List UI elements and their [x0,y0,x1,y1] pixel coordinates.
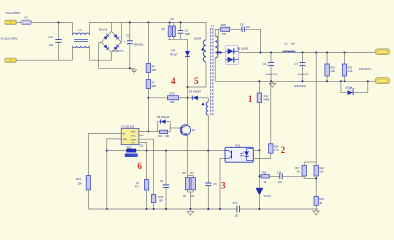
resistor R18 (snubber) [221,23,242,36]
wire bridge left vertex to ground run [99,42,134,68]
svg-text:GND: GND [122,139,127,141]
wire secondary top to D8 [218,29,225,52]
svg-text:R18: R18 [221,23,226,27]
svg-text:R14: R14 [264,95,269,98]
transformer aux winding [206,98,208,151]
IC pin1 drive wire [139,131,158,133]
wire bottom AC to bridge [90,52,112,60]
ground (primary B-) [131,68,137,73]
optocoupler PC1 [225,143,253,162]
svg-text:R16: R16 [262,171,267,174]
IC U1 DK125 [121,124,139,144]
capacitor C4 [135,151,149,209]
inductor L2 (output filter) [283,42,295,53]
dual diode D8 (output rectifier) [219,46,249,65]
wire IC pin FB to left [88,132,121,134]
sense resistor chain (net 1) [257,81,270,150]
row P feedback wire to PC1 [107,150,127,152]
capacitor C8 (snubber) [240,22,261,52]
resistor R17 [295,162,306,178]
resistor R2 (clamp, pair a) [162,22,172,39]
connector J2 (AC neutral) [5,58,16,63]
resistor R23 [314,196,324,209]
node dots clamp [169,21,171,23]
ground secondary bottom [313,209,319,215]
shunt regulator TL431 [256,188,272,209]
svg-text:13K: 13K [319,172,324,174]
transformer core [211,28,213,115]
svg-text:1: 1 [248,94,253,104]
svg-text:R2: R2 [162,27,166,31]
svg-text:1N4007*4: 1N4007*4 [112,50,124,53]
svg-text:1R: 1R [191,196,194,198]
svg-text:1K: 1K [264,182,267,184]
svg-text:R15: R15 [159,196,164,199]
svg-text:CY1: CY1 [233,202,238,205]
wire bridge right vertex up to rail [120,22,122,42]
svg-text:VCC: VCC [131,135,136,137]
svg-text:FR107: FR107 [170,53,178,56]
svg-text:C8: C8 [240,22,244,26]
resistor R24 (opto series) [253,81,279,158]
svg-text:2M2: 2M2 [152,86,157,88]
resistor R11 (gate) [158,122,171,139]
svg-text:3: 3 [221,180,226,190]
transformer T1 primary winding [188,22,207,87]
connector -OUT [375,78,390,84]
svg-text:D5 1N4148: D5 1N4148 [157,116,170,119]
capacitor C3 (clamp) [178,22,191,39]
connector J1 (AC line) [5,20,16,25]
capacitor CY1 (Y-cap) [233,202,240,217]
diode D4 (clamp FR107) [170,39,190,125]
resistors R8 R9 (current sense) [183,173,196,209]
polarity dot aux [202,103,204,105]
svg-text:CS: CS [132,143,136,145]
svg-text:R23: R23 [319,198,324,201]
wire top AC line [32,21,73,23]
capacitor C5 (aux filter) [205,151,217,209]
svg-text:2.2K: 2.2K [330,71,335,73]
wire J1 to fuse [16,21,20,23]
svg-text:F1: F1 [25,16,29,20]
capacitor C2 (bulk electrolytic) [124,22,145,68]
resistor R4 (startup, upper) [146,22,157,72]
svg-text:0R330: 0R330 [126,154,134,157]
svg-text:CU: CU [49,35,53,39]
svg-text:OUTPUT+: OUTPUT+ [359,67,372,71]
diode D5 (gate) [157,116,170,132]
bottom rail secondary part [240,208,319,210]
rail dots [270,80,272,82]
IC pin4 wire to C4 [139,143,147,151]
svg-text:1uH: 1uH [291,44,296,46]
svg-text:4.7K: 4.7K [274,150,279,152]
svg-text:R13: R13 [76,177,81,181]
svg-text:2.4K: 2.4K [348,71,353,73]
diode D6 (VCC rectifier) [189,91,208,101]
svg-text:470uF/16V: 470uF/16V [298,74,309,76]
svg-text:+: + [124,40,126,44]
svg-text:TL431: TL431 [264,194,272,198]
svg-text:1000uF/16V: 1000uF/16V [266,74,278,76]
polarity dot primary [201,48,203,50]
svg-text:10R: 10R [170,101,175,104]
svg-text:L1: L1 [79,28,83,32]
capacitor C7 (output electrolytic) [295,53,310,82]
resistor R16 (ref) [259,171,279,183]
inductor L1 common-mode choke [73,22,90,60]
svg-text:DRN: DRN [131,139,136,141]
svg-text:R24: R24 [274,146,279,149]
svg-text:Q1: Q1 [192,129,196,132]
main output line [239,52,376,54]
capacitor C10 (ref) [277,171,304,183]
svg-text:D4: D4 [172,49,176,53]
transistor Q1 [170,125,196,176]
capacitor C6 (output electrolytic) [263,53,278,82]
svg-text:C2: C2 [126,34,130,38]
snubber wire secondary top [215,28,221,30]
ground primary rail [187,209,193,215]
svg-text:R22: R22 [319,167,324,170]
wire TL431 cathode [258,150,260,188]
resistor R3 (clamp, pair b) [172,22,175,39]
svg-text:3K: 3K [319,203,322,205]
resistor R20 (divider upper) [325,53,336,82]
primary bottom rail [88,208,237,210]
svg-text:AC110-240V: AC110-240V [1,37,18,41]
svg-text:R10: R10 [170,92,175,96]
ground secondary [269,81,275,87]
svg-text:0R68: 0R68 [264,99,270,101]
node dots startup chain [147,97,149,99]
svg-text:PC1: PC1 [235,143,241,147]
svg-text:D8 10100: D8 10100 [237,47,249,51]
svg-text:R21: R21 [348,67,353,70]
voltage divider feed [315,53,317,163]
wire IC pin GND to left loop [107,139,121,209]
svg-text:D6 1N4007: D6 1N4007 [189,91,202,94]
row A VCC supply wire [148,97,167,99]
IC pin2 stub [139,134,144,136]
svg-text:2M2: 2M2 [152,70,157,72]
svg-text:DRV: DRV [131,132,136,134]
svg-text:102: 102 [246,26,251,29]
capacitor C9 [160,151,169,209]
IC pin3 wire to R15 [139,139,154,194]
svg-text:U1 DK125: U1 DK125 [121,124,134,128]
svg-text:C6: C6 [263,62,267,66]
node dots top rail [129,21,131,23]
svg-text:NC: NC [297,172,301,174]
svg-text:T1AL/250V: T1AL/250V [5,11,20,15]
svg-text:C7: C7 [295,62,299,66]
svg-text:N1/N4: N1/N4 [194,37,202,40]
svg-text:1R: 1R [183,196,186,198]
transformer secondary winding [215,29,218,81]
bridge rectifier D1-D4 [99,28,124,53]
resistor R21 (divider upper b) [342,53,353,82]
svg-text:4: 4 [171,76,176,86]
wire clamp bottom node [168,38,188,40]
node dots switch-node vertical [187,86,189,88]
resistor R22 [304,162,324,196]
wire PC1 lower pin to rail [220,158,225,209]
wire bottom AC line [16,59,72,61]
wire PC1 right top pin [253,149,259,151]
svg-text:47R: 47R [222,34,227,36]
svg-text:C10: C10 [277,171,282,174]
resistor R7 (startup, lower) [146,73,157,132]
secondary ground rail [215,80,375,82]
node dot CU top [58,21,60,23]
svg-text:10R: 10R [159,201,164,203]
selected resistor R12 (feedback) [125,146,138,157]
capacitor CU (X-cap) [49,22,62,60]
svg-text:N2: N2 [171,17,175,21]
resistor R13 [76,133,91,209]
svg-text:10K: 10K [78,183,83,186]
svg-text:6: 6 [137,161,142,171]
svg-text:2: 2 [281,145,286,155]
svg-text:5: 5 [194,76,199,86]
resistor R10 (VCC series) [168,92,193,105]
LED D2 indicator loop [341,81,368,95]
svg-text:R20: R20 [330,67,335,70]
svg-text:+DC(16V): +DC(16V) [294,84,307,88]
resistor R15 [151,195,163,209]
svg-text:222: 222 [49,43,54,47]
svg-text:400V/22u: 400V/22u [134,45,145,47]
svg-text:10R: 10R [165,136,170,138]
wire bridge top vertex to rail [110,22,112,31]
connector +OUT [375,49,390,55]
svg-text:D1-D4: D1-D4 [99,28,108,32]
svg-text:R17: R17 [295,167,300,170]
wire choke to B+ rail [90,21,207,23]
svg-text:220P: 220P [185,34,191,36]
